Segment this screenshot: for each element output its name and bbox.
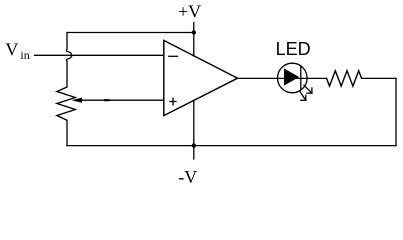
- op-amp non-inverting input marker: [169, 101, 176, 103]
- svg-text:-V: -V: [178, 167, 197, 187]
- wire right rail down: [395, 78, 397, 145]
- LED emission arrow lower: [299, 91, 306, 101]
- wire bottom rail -V: [67, 145, 396, 147]
- LED D1: [278, 63, 312, 100]
- potentiometer wiper arrow: [72, 98, 83, 103]
- LED emission arrow upper: [304, 85, 312, 93]
- resistor R2: [327, 71, 362, 86]
- svg-text:+V: +V: [178, 2, 201, 22]
- wire wiper thick segment: [104, 99, 110, 101]
- junction -V: [192, 143, 196, 147]
- wire Vin to op-amp inverting input: [35, 54, 164, 56]
- svg-text:V: V: [5, 39, 18, 59]
- wire wiper to op-amp non-inverting input: [80, 99, 164, 101]
- op-amp inverting input marker: [168, 55, 178, 57]
- op-amp U1: [164, 40, 238, 115]
- wire vertical rail from top wire to potentiometer (hops over Vin wire): [66, 33, 71, 88]
- wire top rail to +V junction: [67, 32, 194, 34]
- wire resistor to right rail: [362, 77, 396, 79]
- svg-text:LED: LED: [276, 39, 311, 59]
- wire op-amp output to resistor: [238, 77, 327, 79]
- wire op-amp negative supply / -V stub: [193, 100, 195, 159]
- wire pot bottom to bottom rail: [66, 120, 68, 145]
- wire +V stub: [193, 23, 195, 57]
- junction +V: [192, 30, 196, 34]
- potentiometer R1: [57, 87, 75, 120]
- svg-text:in: in: [20, 48, 29, 62]
